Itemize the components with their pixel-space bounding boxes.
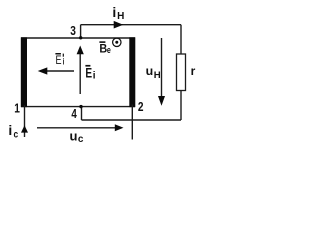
wire resistor bottom down [180, 91, 182, 121]
voltage arrow u_H [161, 38, 163, 97]
node 3 junction dot [79, 36, 82, 39]
wire top (node3 to top-right corner) [81, 24, 181, 26]
svg-text:H: H [117, 11, 124, 22]
svg-text:3: 3 [70, 24, 76, 38]
svg-text:u: u [146, 64, 154, 78]
node 4 stub wire [81, 107, 83, 120]
svg-text:H: H [154, 70, 161, 81]
svg-text:1: 1 [14, 101, 20, 115]
field arrow E_i (pointing up) [79, 54, 81, 94]
electrode bar left (terminal 1) [21, 37, 27, 107]
svg-text:u: u [70, 128, 78, 143]
symbol B out of page (circle-dot) [113, 38, 121, 46]
svg-text:e: e [107, 44, 111, 55]
svg-text:B: B [99, 43, 107, 56]
voltage arrow u_c [37, 127, 115, 129]
svg-text:c: c [78, 134, 84, 145]
svg-text:i: i [8, 122, 12, 138]
svg-text:2: 2 [138, 100, 144, 114]
plate bottom edge [21, 106, 135, 108]
svg-text:r: r [191, 64, 196, 78]
svg-text:i: i [62, 56, 64, 67]
svg-text:i: i [93, 70, 96, 81]
field arrow E'_i (pointing left) [47, 70, 74, 72]
wire right (corner down to resistor top) [180, 25, 182, 54]
svg-text:4: 4 [71, 108, 77, 121]
wire terminal 2 down (node 2 lead) [131, 105, 133, 140]
wire bottom (resistor loop to node 4 stub) [82, 119, 182, 121]
wire terminal 1 down (i_c lead) [24, 105, 26, 137]
resistor r [177, 54, 186, 91]
arrowhead i_H [114, 21, 124, 29]
svg-text:E: E [85, 65, 92, 81]
node 3 stub wire [80, 25, 82, 38]
node 4 junction dot [79, 105, 82, 108]
svg-text:E: E [56, 54, 62, 68]
electrode bar right (terminal 2) [129, 37, 135, 107]
arrowhead i_c [21, 125, 28, 132]
plate top edge [21, 37, 135, 39]
svg-text:c: c [14, 129, 19, 141]
svg-text:i: i [112, 4, 116, 20]
